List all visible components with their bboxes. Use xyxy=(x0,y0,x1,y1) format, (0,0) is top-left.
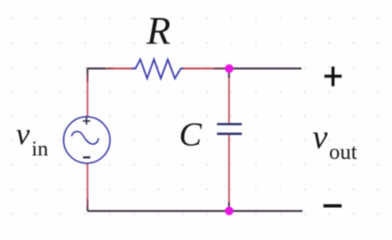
wire dark cap at top-left corner xyxy=(87,68,89,75)
voltage source xyxy=(64,117,110,163)
svg-text:in: in xyxy=(32,137,49,161)
label - terminal xyxy=(323,204,341,207)
svg-text:v: v xyxy=(313,119,329,156)
wire dark cap below top node xyxy=(228,69,230,79)
wire dark blend left of top node xyxy=(214,68,229,70)
capacitor C xyxy=(217,124,242,134)
wire dark cap at bottom-left corner xyxy=(87,206,89,211)
wire top-left horizontal (red part to resistor) xyxy=(111,68,132,70)
svg-text:out: out xyxy=(329,139,357,164)
svg-text:C: C xyxy=(179,117,202,154)
svg-text:R: R xyxy=(146,9,171,53)
wire top-left horizontal (dark part from corner) xyxy=(88,68,107,70)
wire bottom horizontal xyxy=(88,210,303,212)
wire red from resistor to top node xyxy=(183,68,229,70)
node top junction xyxy=(225,64,234,73)
wire top-right horizontal to + terminal xyxy=(229,68,302,70)
wire dark cap above bottom node xyxy=(228,202,230,211)
label + terminal xyxy=(324,67,341,87)
wire left vertical (source to top corner) xyxy=(87,68,89,117)
wire left vertical (source bottom to bottom corner) xyxy=(87,163,89,211)
wire capacitor lower lead xyxy=(228,134,230,211)
resistor R xyxy=(132,59,184,78)
wire capacitor upper lead xyxy=(228,69,230,124)
svg-text:v: v xyxy=(16,116,30,151)
node bottom junction xyxy=(225,207,234,216)
